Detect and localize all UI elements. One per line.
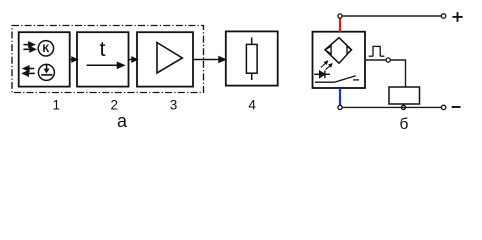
switch contact <box>315 76 359 83</box>
LED emission arrows <box>321 61 332 69</box>
load resistor <box>389 87 420 104</box>
terminal plus circle <box>441 14 445 18</box>
node load-bottom <box>401 105 405 109</box>
svg-text:а: а <box>117 111 128 131</box>
svg-text:4: 4 <box>248 98 256 113</box>
receiver input arrows <box>23 42 35 51</box>
blue wire (bottom feed) <box>339 88 341 105</box>
receiver circle K <box>38 41 53 56</box>
minus sign <box>452 106 461 108</box>
svg-text:К: К <box>43 43 50 55</box>
amplifier triangle <box>157 43 182 74</box>
emitter circle (arrow onto plate symbol) <box>38 64 54 80</box>
red wire (top feed) <box>339 18 341 32</box>
time axis arrow <box>87 63 124 68</box>
diamond right triangle <box>347 46 352 54</box>
terminal minus circle <box>441 105 445 109</box>
wire block3-block4 with arrowhead <box>193 57 225 62</box>
wire block2-block3 with arrowhead <box>129 57 138 62</box>
output element resistor <box>246 38 257 81</box>
load lead to bottom rail <box>403 104 405 106</box>
wire bottom rail <box>342 106 441 108</box>
node top <box>338 14 342 18</box>
diamond left triangle <box>325 46 331 54</box>
block 1 (sensing elements) <box>19 32 70 86</box>
dash-dot enclosure (sensor unit boundary) <box>12 26 204 93</box>
LED diode <box>314 71 330 79</box>
wire block1-block2 with arrowhead <box>70 57 78 62</box>
wire top rail <box>342 15 441 17</box>
emitter output arrows <box>23 66 35 76</box>
pulse symbol <box>369 46 385 56</box>
block 4 (output element) <box>226 31 278 85</box>
plus sign <box>452 12 462 22</box>
svg-text:3: 3 <box>170 98 178 113</box>
wire node to load <box>390 60 405 87</box>
svg-text:б: б <box>400 116 409 133</box>
svg-text:1: 1 <box>52 98 60 113</box>
node bottom <box>338 105 342 109</box>
svg-text:t: t <box>100 37 106 61</box>
block 2 (time element) <box>77 32 129 86</box>
sensor box <box>313 32 366 88</box>
block 3 (amplifier) <box>137 32 193 86</box>
proximity diamond <box>325 38 352 64</box>
wire output from box <box>365 59 386 61</box>
node output <box>386 58 390 62</box>
